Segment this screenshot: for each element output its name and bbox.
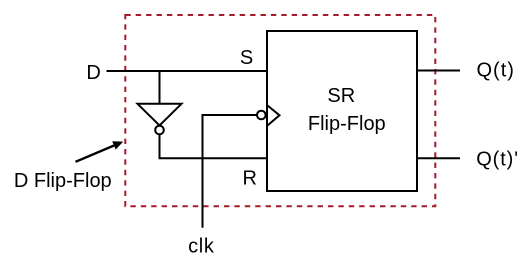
wire junction drop to inverter — [159, 71, 161, 104]
wire D input to S — [107, 70, 268, 72]
svg-text:SR: SR — [327, 85, 355, 107]
svg-text:clk: clk — [188, 236, 215, 258]
svg-text:R: R — [242, 168, 256, 190]
svg-text:S: S — [240, 47, 253, 69]
arrow pointer to enclosure — [76, 141, 124, 162]
clock edge triangle — [268, 106, 280, 126]
inverter bubble — [155, 126, 164, 135]
svg-text:Flip-Flop: Flip-Flop — [308, 113, 386, 135]
wire Q(t) output — [417, 70, 460, 72]
svg-text:Q(t): Q(t) — [477, 60, 515, 82]
wire Q(t)' output — [417, 157, 460, 159]
SR flip-flop box U1 — [267, 31, 417, 191]
wire clk to clock input — [203, 114, 258, 116]
inverter (NOT gate) — [138, 104, 182, 126]
wire inverter output to R — [159, 157, 268, 159]
wire clk vertical — [202, 114, 204, 228]
svg-text:D: D — [86, 62, 100, 84]
svg-text:D Flip-Flop: D Flip-Flop — [14, 170, 112, 192]
wire inverter output down — [159, 134, 161, 158]
clock input bubble — [257, 111, 266, 120]
dashed enclosure (D flip-flop boundary) — [125, 15, 435, 206]
svg-text:Q(t)': Q(t)' — [476, 148, 519, 170]
